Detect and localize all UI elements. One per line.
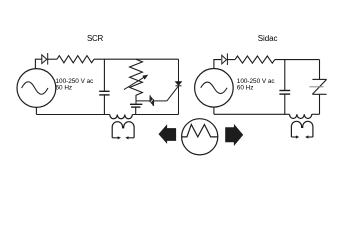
svg-text:SCR: SCR [87,34,104,43]
wire bottom rail right [132,114,178,116]
svg-text:60 Hz: 60 Hz [56,84,73,91]
potentiometer R2 [124,59,147,101]
transformer T1 secondary [112,122,134,138]
wire V2 bottom lead [213,107,215,114]
diode D1 [42,53,48,65]
capacitor C3 [279,60,290,115]
diac D2 [150,95,153,106]
transformer T2 primary [290,114,312,118]
arrow left [159,124,177,144]
wire V2 top lead [214,60,221,69]
transformer T2 secondary [291,121,313,137]
svg-text:60 Hz: 60 Hz [237,84,254,91]
wire pot node to diac [136,101,150,104]
transformer T1 primary [110,115,133,119]
sidac D4 [309,60,326,115]
wire bottom rail left [36,114,109,116]
wire D3 to R3 [227,59,235,61]
wire V1 top lead [35,59,41,68]
wire coil to corner [312,113,320,115]
SCR Q1 [167,82,182,101]
wire top rail [94,58,179,60]
wire top rail right circuit [275,59,320,61]
capacitor C2 [130,104,142,114]
svg-text:Sidac: Sidac [258,34,278,43]
spark gap electrodes T1 [112,136,134,139]
wire diac to gate [153,100,167,102]
wire SCR anode [178,59,180,82]
diode D3 [222,53,228,65]
resistor R3 [235,56,275,63]
wire D1 to R1 [48,58,57,60]
capacitor C1 [99,59,109,114]
lamp symbol [182,119,218,155]
wire V1 bottom lead [35,107,37,114]
resistor R1 [57,56,94,63]
AC source V1 [17,69,56,108]
AC source V2 [195,69,234,108]
spark gap electrodes T2 [291,135,313,138]
arrow right [225,124,243,146]
wire SCR cathode [178,86,180,115]
wire bottom rail right circuit [214,113,290,115]
